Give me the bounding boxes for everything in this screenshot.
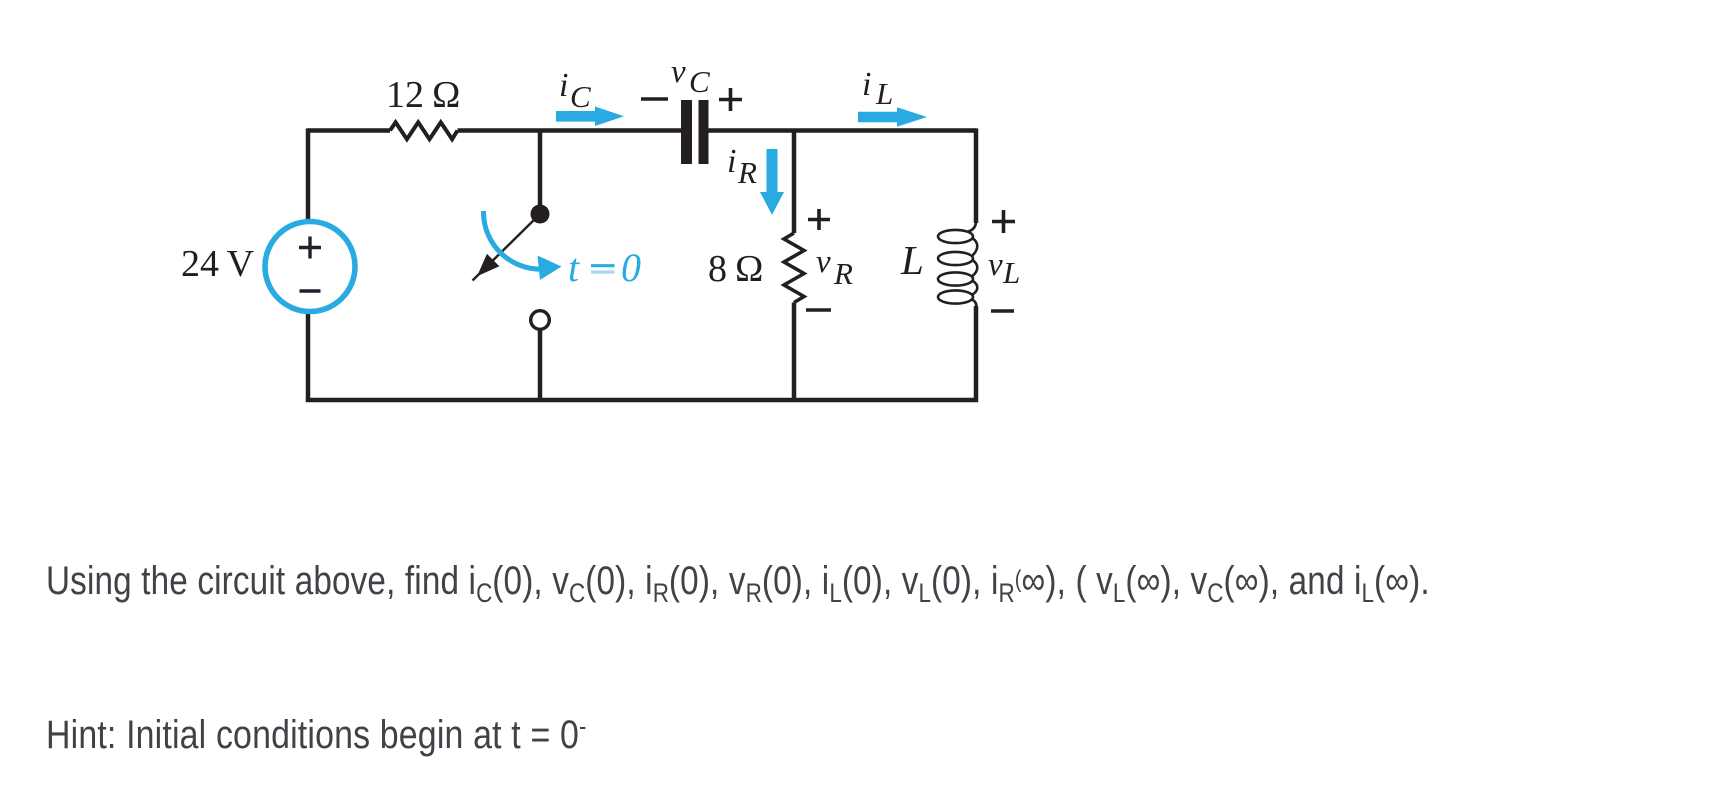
wire 8ohm branch lower — [792, 303, 797, 401]
wire top middle (resistor to capacitor) — [458, 128, 682, 133]
label iL — [862, 66, 893, 111]
current arrow iL blue — [858, 107, 927, 127]
resistor R1 12 ohm zigzag — [390, 122, 458, 139]
svg-text:i: i — [862, 66, 871, 103]
label iC — [559, 67, 591, 114]
svg-text:C: C — [689, 64, 710, 99]
wire left vertical upper — [306, 128, 311, 221]
capacitor polarity minus — [641, 97, 668, 101]
wire top right (capacitor to right corner) — [708, 128, 976, 133]
voltage source V1 24V circle — [265, 222, 355, 312]
wire right vertical lower — [974, 306, 979, 402]
label t = 0 blue italic — [568, 245, 641, 290]
wire switch branch upper — [538, 131, 543, 209]
resistor R2 8 ohm zigzag vertical — [784, 233, 804, 303]
svg-text:C: C — [570, 79, 591, 114]
svg-text:R: R — [833, 256, 853, 291]
svg-text:i: i — [727, 143, 736, 180]
wire bottom horizontal — [306, 398, 978, 403]
switch S1 arm with arrowhead — [473, 214, 541, 281]
svg-text:L: L — [900, 237, 924, 283]
svg-text:8 Ω: 8 Ω — [708, 248, 764, 290]
switch S1 open terminal circle — [531, 311, 550, 330]
wire 8ohm branch upper — [792, 131, 797, 234]
wire left vertical lower — [306, 312, 311, 402]
svg-text:12 Ω: 12 Ω — [386, 74, 461, 116]
label vR — [816, 244, 853, 291]
label plus above vR — [808, 209, 830, 230]
svg-text:L: L — [1002, 255, 1020, 290]
svg-text:t: t — [568, 245, 580, 290]
label plus above vL — [992, 210, 1015, 233]
svg-text:24 V: 24 V — [181, 243, 255, 285]
svg-text:0: 0 — [621, 245, 641, 290]
label vC — [671, 54, 710, 99]
label iR — [727, 143, 757, 190]
switch closing arc t=0 blue — [483, 211, 561, 280]
label vL — [988, 247, 1020, 290]
hint text line — [46, 713, 587, 758]
wire right vertical upper — [974, 128, 979, 223]
svg-text:v: v — [988, 247, 1003, 283]
switch S1 pivot dot — [531, 205, 550, 224]
inductor L1 coil — [938, 222, 977, 308]
svg-text:R: R — [737, 155, 757, 190]
label minus below vR — [806, 308, 831, 312]
wire top-left horizontal — [308, 128, 390, 133]
current arrow iC blue — [556, 107, 624, 127]
svg-text:L: L — [875, 76, 893, 111]
wire switch branch lower — [538, 331, 543, 401]
capacitor polarity plus — [719, 88, 742, 111]
svg-text:i: i — [559, 67, 568, 104]
svg-text:v: v — [816, 244, 831, 280]
label minus below vL — [991, 309, 1014, 313]
current arrow iR blue (downward) — [760, 149, 784, 215]
question text line — [46, 559, 1430, 604]
svg-text:v: v — [671, 54, 686, 90]
capacitor C1 plates — [681, 100, 709, 164]
